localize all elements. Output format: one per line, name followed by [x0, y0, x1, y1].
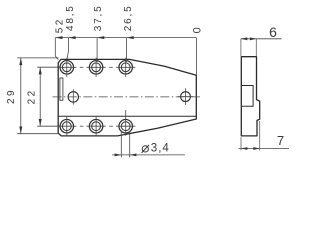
svg-text:22: 22: [27, 88, 38, 104]
row1 centerline dashes: [80, 66, 84, 68]
arrow 7 right: [253, 147, 259, 150]
label diameter symbol: [142, 145, 150, 153]
svg-text:6: 6: [269, 24, 277, 40]
dimension 6 line: [241, 38, 282, 40]
arrow 29 bottom: [19, 127, 22, 134]
diameter 3.4 dimension line: [112, 154, 185, 156]
svg-text:48,5: 48,5: [65, 4, 76, 31]
29 bottom extension: [17, 133, 58, 135]
side view outline: [241, 57, 259, 136]
arrow 6 left: [241, 37, 247, 40]
mid-left circle: [68, 89, 78, 104]
slot on left edge: [60, 78, 63, 100]
hole H6 bottom row col3: [116, 110, 135, 136]
22 top extension: [37, 66, 59, 68]
22 bottom extension: [37, 125, 59, 127]
arrow 22 top: [39, 67, 42, 74]
7 extension right: [259, 121, 261, 151]
arrow d34 right: [130, 154, 137, 157]
svg-text:26,5: 26,5: [123, 5, 134, 32]
dimension 29 line: [20, 58, 22, 134]
arrow 29 top: [19, 58, 22, 65]
svg-text:0: 0: [191, 27, 203, 33]
6 extension right: [255, 39, 257, 56]
side view notch: [241, 86, 253, 107]
arrow 37.5: [97, 36, 104, 39]
hole H3 top row col3: [116, 58, 135, 77]
row2 centerline dashes: [80, 125, 84, 127]
arrow 6 right: [250, 37, 256, 40]
29 top extension: [17, 57, 58, 59]
dimension 0 extension: [195, 38, 197, 76]
internal edge line: [58, 115, 196, 117]
arrow 22 bottom: [39, 119, 42, 126]
arrow 48.5: [68, 36, 75, 39]
dimension 7 line: [239, 148, 290, 150]
dimension 22 line: [39, 67, 41, 126]
svg-text:37,5: 37,5: [93, 5, 104, 32]
hole H2 top row col2: [87, 58, 106, 77]
arrow 26.5: [127, 36, 134, 39]
hole H5 bottom row col2: [87, 117, 106, 136]
front view outline: [58, 59, 196, 135]
arrow d34 left: [115, 154, 122, 157]
dimension 48.5 extension (jogged): [67, 38, 69, 61]
arrow 7 left: [241, 147, 247, 150]
dimension 52 extension (jogged): [55, 38, 58, 60]
dimension 26.5 extension: [126, 38, 128, 62]
arrow 52: [55, 36, 62, 39]
main horizontal centerline: [53, 96, 201, 98]
7 extension left: [240, 137, 242, 150]
svg-text:52: 52: [54, 17, 65, 33]
hole H1 top row col1: [57, 58, 76, 77]
right circle: [178, 88, 193, 105]
6 extension left: [240, 39, 242, 56]
svg-text:7: 7: [277, 133, 284, 148]
svg-text:3,4: 3,4: [151, 142, 170, 154]
svg-text:29: 29: [6, 88, 17, 104]
top ordinate dimension line: [55, 37, 196, 39]
diameter 3.4 extension lines: [120, 131, 122, 157]
dimension 37.5 extension: [96, 38, 98, 62]
hole H4 bottom row col1: [57, 117, 76, 136]
